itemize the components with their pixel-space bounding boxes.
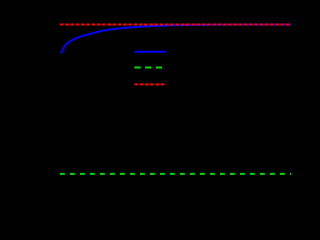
legend green dashed line sample [134,67,166,69]
legend blue solid line sample [134,51,166,53]
red dashed horizontal asymptote line [60,24,291,26]
green dashed horizontal line (lower bound) [60,173,291,175]
legend red dashed line sample [134,83,166,85]
blue curve (solid, converges to asymptote) [61,25,292,54]
